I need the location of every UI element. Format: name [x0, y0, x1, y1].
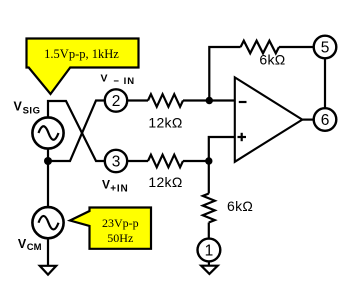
- wire R1 to op-amp inverting input: [183, 99, 235, 101]
- source VCM: [32, 207, 63, 238]
- svg-text:3: 3: [112, 154, 121, 171]
- callout balloon "1.5Vp-p, 1kHz": [27, 39, 139, 95]
- wire node 2 to R1: [127, 99, 148, 101]
- svg-text:6kΩ: 6kΩ: [227, 198, 253, 214]
- resistor R4 6kOhm (vertical): [203, 194, 215, 223]
- svg-text:SIG: SIG: [23, 105, 41, 116]
- wire R2 to noninverting junction: [183, 160, 209, 162]
- wire VSIG top to node 3 (crossover): [48, 101, 105, 161]
- wire noninverting junction down to R4: [208, 161, 210, 194]
- svg-text:V: V: [102, 177, 110, 191]
- feedback wire (inverting node up to R3): [209, 47, 240, 101]
- svg-text:5: 5: [321, 40, 330, 57]
- junction dot (VSIG/VCM): [44, 157, 52, 165]
- label VCM: [18, 237, 42, 253]
- label VSIG: [14, 99, 41, 116]
- svg-text:6kΩ: 6kΩ: [259, 52, 285, 68]
- wire node 1 to ground: [208, 261, 210, 265]
- label V-IN: [101, 73, 136, 88]
- svg-text:50Hz: 50Hz: [107, 231, 133, 245]
- svg-text:+IN: +IN: [110, 183, 128, 194]
- svg-text:V: V: [14, 99, 23, 113]
- wire node 5 to node 6: [324, 58, 326, 108]
- resistor R2 12kOhm: [148, 155, 183, 168]
- svg-text:V: V: [18, 237, 27, 251]
- node 1: [198, 239, 221, 262]
- svg-text:12kΩ: 12kΩ: [148, 114, 182, 130]
- wire op-amp output to node 6: [302, 118, 313, 120]
- junction dot (inverting input node): [206, 97, 213, 104]
- svg-text:23Vp-p: 23Vp-p: [102, 216, 139, 230]
- ground (below node 1): [201, 266, 218, 274]
- wire VSIG bottom to VCM top: [47, 148, 49, 208]
- resistor R3 6kOhm (feedback): [241, 41, 279, 54]
- wire VCM to ground: [47, 238, 49, 266]
- svg-text:1: 1: [205, 243, 214, 260]
- node 6: [314, 108, 337, 131]
- resistor R1 12kOhm: [148, 94, 183, 107]
- svg-text:V: V: [101, 73, 108, 85]
- svg-text:− IN: − IN: [113, 76, 135, 87]
- svg-text:6: 6: [321, 112, 330, 129]
- wire junction to node 2 (crossover): [48, 101, 105, 162]
- node 3: [105, 150, 127, 172]
- wire R3 to node 5: [279, 46, 314, 48]
- ground (below VCM): [40, 266, 56, 275]
- svg-text:CM: CM: [27, 242, 42, 253]
- node 5: [314, 36, 337, 59]
- node 2: [105, 89, 127, 111]
- op-amp U1: [235, 77, 302, 161]
- junction dot (noninverting input node): [205, 157, 212, 164]
- source VSIG: [32, 117, 63, 148]
- label V+IN: [102, 177, 129, 194]
- svg-text:2: 2: [112, 93, 121, 110]
- wire node 3 to R2: [127, 160, 148, 162]
- wire R4 to node 1: [208, 223, 210, 239]
- wire junction to op-amp noninverting input: [209, 137, 235, 161]
- svg-text:1.5Vp-p, 1kHz: 1.5Vp-p, 1kHz: [44, 47, 119, 61]
- callout balloon "23Vp-p 50Hz": [70, 208, 151, 249]
- svg-text:12kΩ: 12kΩ: [148, 174, 182, 190]
